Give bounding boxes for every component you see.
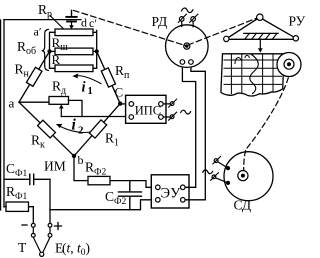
label Rn bbox=[15, 62, 30, 80]
SD terminals bbox=[226, 166, 230, 170]
wire EU to RD left bbox=[182, 64, 195, 187]
thermocouple terminals bbox=[31, 223, 35, 227]
node junction right bbox=[95, 49, 99, 53]
wire C to IPS bbox=[120, 103, 129, 105]
wire from b down to Rf2 bbox=[74, 156, 88, 181]
label i1 bbox=[82, 80, 93, 97]
wire left frame vertical bbox=[3, 20, 5, 207]
IPS switch contacts bbox=[163, 104, 170, 117]
node junction left bbox=[47, 49, 51, 53]
wire top rail from a' to d bbox=[4, 19, 81, 21]
wire horizontal to IPS lower terminal bbox=[61, 116, 129, 118]
wire left vertical of resistor block bbox=[50, 32, 56, 68]
label R1 bbox=[105, 131, 119, 149]
svg-text:2: 2 bbox=[78, 125, 84, 137]
svg-text:i: i bbox=[72, 117, 77, 134]
pointer line from Rp label to resistor bbox=[50, 16, 64, 29]
resistor Rsh bbox=[55, 48, 93, 55]
wire right vertical of resistor block (c') bbox=[93, 30, 97, 68]
IPS ac tilde bbox=[181, 110, 191, 114]
dashed link roll to SD bbox=[244, 78, 289, 170]
svg-text:ЭУ: ЭУ bbox=[161, 186, 182, 202]
label Cf1 bbox=[6, 161, 28, 179]
svg-text:РД: РД bbox=[152, 14, 168, 29]
label plus bbox=[55, 223, 62, 230]
label Rk bbox=[31, 133, 45, 151]
label Rf1 bbox=[6, 184, 28, 202]
IPS box bbox=[126, 95, 166, 123]
svg-text:(t, t0): (t, t0) bbox=[62, 241, 90, 258]
label E(t,t0) bbox=[55, 241, 90, 258]
node a bbox=[9, 96, 15, 111]
SD ac tilde bbox=[203, 170, 213, 174]
wire Rf2 to EU bbox=[110, 181, 156, 188]
label R bbox=[52, 52, 61, 67]
resistor R bbox=[55, 65, 93, 72]
resistor Rp2 (Rpi) bbox=[101, 68, 115, 87]
label IM bbox=[44, 159, 66, 174]
label i2 bbox=[72, 117, 85, 137]
label Rob bbox=[17, 39, 36, 57]
svg-text:a′: a′ bbox=[34, 25, 42, 39]
potentiometer Rd bbox=[49, 97, 69, 105]
brace for Rob bbox=[42, 29, 49, 70]
svg-text:СД: СД bbox=[234, 198, 252, 213]
EU amplifier box bbox=[151, 175, 189, 208]
wire diagonal a to b bbox=[19, 102, 74, 156]
wire Cf1 down to plus terminal bbox=[49, 179, 51, 223]
svg-text:a: a bbox=[9, 96, 15, 111]
motor RD bbox=[166, 25, 209, 68]
wire diagonal left (to node a) bbox=[19, 51, 50, 102]
wire Rf1 to minus terminal bbox=[4, 207, 33, 223]
svg-text:i: i bbox=[82, 80, 86, 96]
resistor Rf2 bbox=[88, 176, 110, 184]
svg-text:Т: Т bbox=[18, 240, 27, 255]
wire left edge (cropped) bbox=[0, 20, 2, 210]
wiper of Rp (slider contact with arrow) bbox=[66, 10, 76, 29]
chart grid bbox=[224, 60, 282, 84]
resistor Rn bbox=[26, 67, 42, 86]
dashed mechanical link RD to RU bbox=[188, 18, 258, 45]
motor SD bbox=[224, 152, 273, 201]
label Rf2 bbox=[85, 160, 107, 178]
RD bottom terminals bbox=[180, 60, 185, 65]
thermocouple T bbox=[33, 237, 50, 252]
svg-text:1: 1 bbox=[88, 86, 93, 97]
wire from a to Rd bbox=[19, 101, 49, 103]
label T bbox=[18, 240, 27, 255]
label Rsh bbox=[52, 35, 69, 53]
wire from Rd right end step down bbox=[69, 100, 83, 116]
wire diagonal right (to node C) bbox=[97, 51, 121, 103]
svg-text:d: d bbox=[81, 15, 87, 29]
capacitor Cf2 bbox=[119, 181, 142, 210]
label Rpi bbox=[115, 63, 130, 81]
node C bbox=[118, 101, 122, 105]
label a' bbox=[34, 25, 42, 39]
label RU bbox=[289, 14, 306, 29]
svg-text:ИМ: ИМ bbox=[44, 159, 66, 174]
label d bbox=[81, 15, 87, 29]
svg-text:ИПС: ИПС bbox=[135, 104, 161, 118]
svg-text:b: b bbox=[78, 153, 84, 167]
RU pen arrow bbox=[259, 39, 261, 48]
RD top terminals bbox=[182, 21, 193, 27]
label Rd bbox=[52, 79, 66, 97]
wire EU to RD right bbox=[185, 64, 205, 200]
wiper arrow of Rd bbox=[59, 104, 64, 108]
label Cf2 bbox=[105, 189, 127, 207]
resistor Rk bbox=[38, 120, 56, 138]
bottom rail wire bbox=[50, 200, 156, 210]
node b bbox=[72, 154, 76, 158]
RD ac tilde bbox=[182, 8, 193, 13]
svg-text:C: C bbox=[115, 85, 124, 100]
label minus bbox=[22, 224, 27, 226]
resistor Rf1 bbox=[6, 202, 29, 211]
svg-text:R: R bbox=[52, 52, 61, 67]
resistor R1 bbox=[89, 120, 106, 138]
current arrow i1 bbox=[76, 76, 101, 84]
current arrow i2 bbox=[60, 126, 99, 132]
svg-text:РУ: РУ bbox=[289, 14, 306, 29]
label c' bbox=[89, 16, 97, 30]
wire diagonal b to C bbox=[74, 104, 120, 156]
label SD bbox=[234, 198, 252, 213]
label RD bbox=[152, 14, 168, 29]
RU carriage hatched bbox=[244, 32, 278, 34]
resistor Rp (slidewire) bbox=[55, 29, 93, 36]
dashed mechanical link wiper to RD bbox=[74, 10, 186, 45]
capacitor Cf1 bbox=[4, 174, 50, 184]
lever linkage RU bbox=[229, 19, 294, 39]
label Rp bbox=[38, 2, 52, 20]
recorder chart paper bbox=[221, 54, 284, 96]
paper roll bbox=[277, 53, 301, 77]
chart trace curve bbox=[250, 54, 258, 94]
